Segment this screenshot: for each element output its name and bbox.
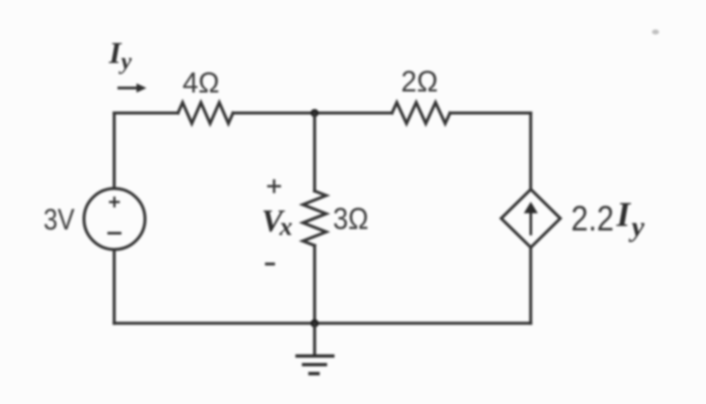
current arrow Iy — [118, 87, 140, 90]
wire top rail segment 3 — [450, 112, 531, 115]
svg-text:2Ω: 2Ω — [401, 66, 438, 99]
wire middle vertical bottom — [313, 246, 316, 324]
wire bottom rail — [114, 322, 531, 325]
voltage source minus — [107, 232, 121, 235]
wire left vertical bottom — [113, 250, 116, 324]
resistor R3 3ohm — [303, 191, 326, 246]
wire left vertical top (source to top rail) — [113, 113, 116, 189]
wire ground stub — [313, 323, 316, 355]
svg-text:3V: 3V — [44, 204, 75, 237]
svg-text:I: I — [616, 195, 632, 234]
wire top rail segment 1 — [114, 112, 178, 115]
artifact dot — [652, 30, 659, 35]
label minus Vx — [265, 263, 275, 266]
svg-text:2.2: 2.2 — [571, 200, 614, 239]
node B bottom middle — [311, 319, 319, 327]
svg-text:I: I — [108, 35, 122, 70]
svg-text:x: x — [279, 212, 293, 241]
node A top middle — [311, 109, 319, 117]
svg-text:y: y — [118, 49, 132, 75]
current source U1 diamond — [501, 189, 560, 247]
label plus Vx — [267, 185, 281, 187]
resistor R1 4ohm — [178, 103, 233, 124]
wire right vertical top — [529, 113, 532, 189]
current source arrow — [529, 211, 532, 235]
svg-text:3Ω: 3Ω — [333, 201, 369, 236]
svg-text:y: y — [629, 211, 645, 243]
voltage source V1 3V circle — [84, 189, 145, 250]
resistor R2 2ohm — [392, 103, 450, 124]
svg-text:4Ω: 4Ω — [183, 68, 220, 100]
ground — [295, 354, 334, 357]
voltage source plus — [109, 201, 120, 203]
wire top rail segment 2 — [233, 112, 392, 115]
wire middle vertical top — [313, 113, 316, 191]
wire right vertical bottom — [529, 247, 532, 323]
